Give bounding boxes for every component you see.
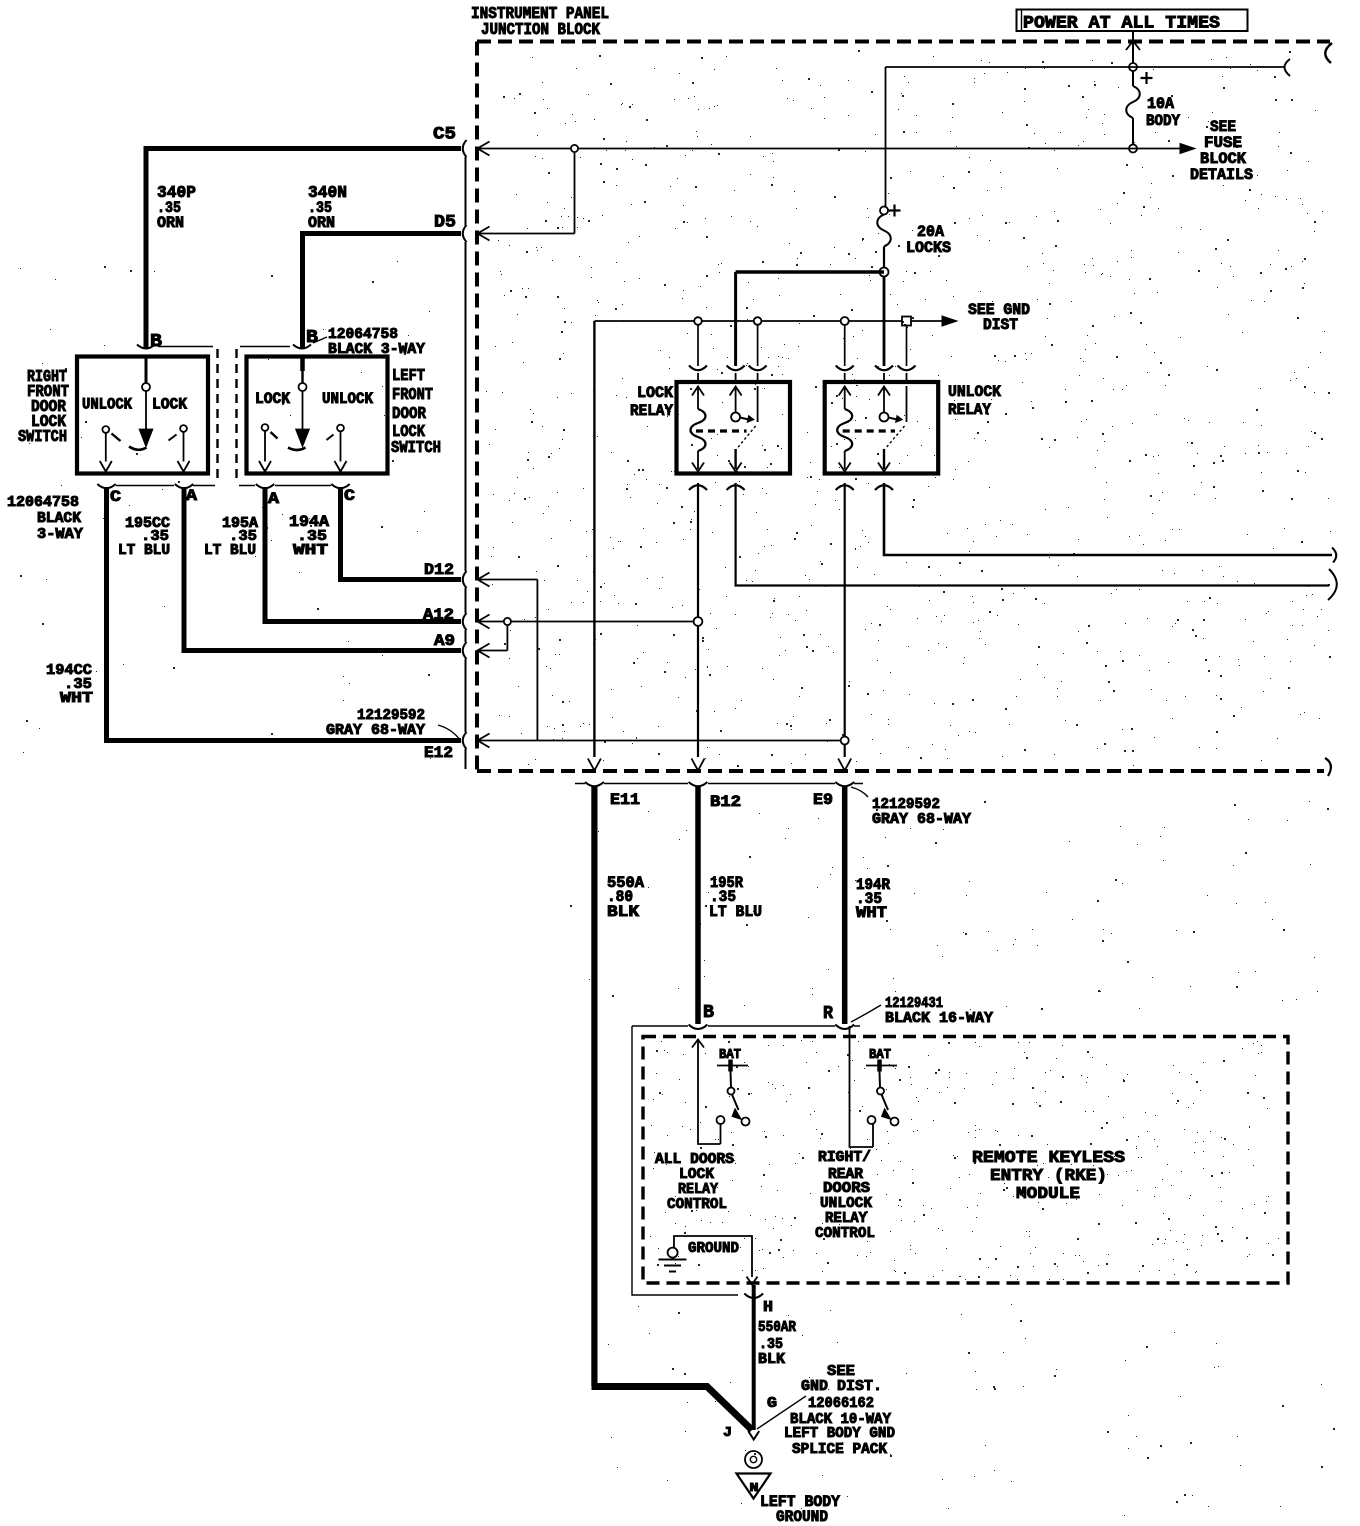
arrow at junction block left border (478, 573, 490, 587)
rke lock control input wire (692, 1040, 704, 1048)
connector cup left border (463, 571, 467, 588)
svg-text:D12: D12 (424, 561, 454, 579)
lock relay movable blade (737, 426, 756, 449)
wire 194A from left switch C to D12 (341, 487, 462, 580)
svg-text:A12: A12 (423, 606, 454, 624)
wire gnd stubs to relay pins (697, 325, 699, 366)
fuse 10A BODY element (1126, 86, 1140, 118)
wire C5 inner line to fuse (479, 148, 1180, 150)
wire D12 inner link down to E12 net (479, 580, 537, 741)
arrow to see fuse block details (1180, 144, 1195, 154)
right switch bottom connector line (116, 485, 215, 487)
connector curve end lock output (1328, 569, 1337, 600)
junction block dashed border top (477, 40, 1330, 44)
wire 550A E11 to ground (591, 786, 597, 1386)
right switch unlock contact (102, 426, 109, 433)
node A9 jumper on A12 line (504, 618, 511, 625)
svg-text:B: B (306, 327, 318, 348)
wire 194CC from right switch C to E12 (107, 487, 462, 741)
svg-text:E12: E12 (424, 744, 453, 762)
connector curve right end of y67 wire (1285, 59, 1291, 76)
unlock relay switch common pin (878, 387, 890, 396)
svg-text:LOCK: LOCK (152, 396, 188, 414)
connector cup relay top pin (689, 366, 707, 371)
arrow at junction block left border (478, 615, 490, 629)
svg-text:LOCKS: LOCKS (906, 239, 951, 257)
svg-text:LT BLU: LT BLU (118, 542, 170, 559)
svg-text:LT BLU: LT BLU (204, 542, 256, 559)
svg-text:DOORS: DOORS (823, 1181, 870, 1197)
circuit breaker 20A LOCKS element (877, 215, 891, 247)
svg-text:MODULE: MODULE (1016, 1185, 1080, 1204)
relay box lock relay (677, 382, 791, 474)
svg-text:BODY: BODY (1146, 112, 1181, 130)
svg-text:DETAILS: DETAILS (1190, 166, 1253, 184)
unlock relay movable blade (885, 426, 905, 449)
svg-text:WHT: WHT (60, 690, 93, 707)
lock relay coil (692, 387, 704, 396)
connector cup bottom border (689, 782, 708, 786)
rke unlock control input wire (850, 1026, 874, 1147)
svg-text:G: G (767, 1395, 777, 1412)
svg-text:SPLICE PACK: SPLICE PACK (792, 1442, 887, 1458)
bat terminal bar unlock side (866, 1065, 897, 1067)
svg-text:RELAY: RELAY (630, 402, 674, 420)
connector cup right switch B (137, 345, 155, 349)
relay box unlock relay (825, 382, 939, 474)
wire E12 inner link to E9 (479, 740, 841, 742)
node unlock relay contact to gnd (square) (902, 317, 911, 326)
rke lock control contact (717, 1116, 725, 1124)
bottom connector bracket line (575, 783, 863, 785)
rke unlock switch alternate contact (891, 1118, 899, 1126)
connector cup relay top pin (836, 366, 854, 371)
wire 20A output branch to lock relay (736, 270, 884, 274)
svg-text:GRAY 68-WAY: GRAY 68-WAY (872, 812, 971, 828)
junction block dashed border left (475, 42, 479, 772)
connector cup left switch A (256, 484, 274, 488)
rke module dashed box (643, 1037, 1288, 1284)
pointer G to splice label (757, 1396, 806, 1429)
wire A12 inner link to B12 net (479, 621, 694, 623)
arrow up at junction block border (1126, 41, 1140, 50)
svg-text:FRONT: FRONT (392, 385, 433, 404)
pointer 12129592 (851, 787, 868, 797)
rke unlock switch pivot (877, 1088, 884, 1095)
pointer to connector label (313, 337, 327, 343)
connector cup rke top (835, 1025, 854, 1030)
connector curve end unlock output (1332, 548, 1336, 563)
svg-text:12064758: 12064758 (328, 327, 398, 343)
connector cup bottom border (585, 782, 604, 786)
svg-text:LEFT: LEFT (392, 366, 425, 385)
svg-text:12066162: 12066162 (808, 1396, 874, 1412)
svg-text:LOCK: LOCK (679, 1167, 714, 1183)
node C5/D5 tie (571, 145, 578, 152)
bat terminal bar lock side (717, 1065, 748, 1067)
wire 194R E9 to rke (842, 786, 848, 1024)
wire unlock relay output to right edge (884, 483, 1332, 555)
svg-text:BLACK 16-WAY: BLACK 16-WAY (885, 1011, 993, 1027)
svg-text:E11: E11 (610, 791, 640, 809)
node A12 joins B12 net (694, 617, 703, 626)
svg-text:UNLOCK: UNLOCK (948, 383, 1002, 401)
right switch lock contact (180, 425, 187, 432)
svg-text:12064758: 12064758 (7, 495, 79, 511)
left switch dashed connector outline (235, 349, 237, 478)
svg-text:BLACK 3-WAY: BLACK 3-WAY (328, 342, 425, 358)
rke lock switch blade (732, 1095, 739, 1111)
connector cup left border (463, 140, 467, 157)
wire inner top feed line y67 (886, 66, 1285, 68)
rke case ground symbol (668, 1248, 678, 1258)
rke connector bracket (632, 1025, 860, 1027)
svg-text:ORN: ORN (157, 214, 184, 232)
svg-text:E9: E9 (813, 791, 833, 809)
svg-text:POWER AT ALL TIMES: POWER AT ALL TIMES (1023, 14, 1220, 34)
svg-text:GRAY 68-WAY: GRAY 68-WAY (326, 723, 425, 739)
svg-text:B: B (150, 331, 162, 352)
svg-text:UNLOCK: UNLOCK (820, 1196, 872, 1212)
svg-text:A9: A9 (434, 632, 455, 650)
pointer 12129431 (851, 1005, 881, 1022)
svg-text:C: C (110, 488, 121, 506)
svg-text:B: B (703, 1003, 714, 1023)
svg-text:C: C (344, 487, 355, 505)
node 20A output (880, 268, 889, 277)
svg-text:N: N (750, 1481, 759, 1495)
arrow down at junction block bottom border (838, 759, 851, 771)
svg-text:RELAY: RELAY (825, 1211, 867, 1227)
wire 195R B12 to rke (695, 786, 701, 1024)
wire lock relay output to right edge (736, 483, 1329, 586)
svg-text:10A: 10A (1147, 95, 1175, 113)
svg-text:DOOR: DOOR (392, 404, 426, 423)
arrow down at splice junction (748, 1431, 759, 1440)
left switch unlock contact (337, 425, 344, 432)
battery feed wire from power at all times (1132, 32, 1134, 86)
plus terminal 10A (1141, 72, 1153, 84)
svg-text:R: R (823, 1004, 833, 1024)
svg-text:C5: C5 (433, 125, 456, 145)
svg-text:WHT: WHT (856, 904, 887, 922)
svg-text:BLK: BLK (758, 1351, 785, 1368)
node E12 joins E9 net (841, 737, 849, 745)
svg-text:LEFT BODY GND: LEFT BODY GND (784, 1426, 895, 1442)
svg-text:550AR: 550AR (758, 1319, 796, 1336)
splice pack symbol (745, 1451, 762, 1468)
right switch stem (145, 357, 148, 383)
svg-text:UNLOCK: UNLOCK (322, 390, 374, 408)
svg-text:A: A (186, 487, 197, 505)
connector cup right switch A (175, 484, 193, 488)
svg-text:GROUND: GROUND (776, 1508, 828, 1526)
arrow at D5 terminal (478, 227, 490, 241)
svg-text:GND DIST.: GND DIST. (801, 1378, 882, 1395)
svg-text:LOCK: LOCK (255, 390, 291, 408)
connector cup left border (463, 642, 467, 659)
svg-text:12129592: 12129592 (357, 708, 425, 724)
svg-text:B12: B12 (710, 793, 741, 811)
arrow down rke ground exit (747, 1277, 758, 1285)
svg-text:BLK: BLK (607, 903, 640, 921)
wire 340P C5 (146, 149, 461, 350)
svg-text:DIST: DIST (983, 316, 1018, 334)
svg-text:3-WAY: 3-WAY (37, 527, 83, 543)
wire A9 jumper (479, 625, 507, 651)
arrow to see gnd dist (942, 316, 957, 326)
wire 550AR from rke ground (752, 1285, 756, 1430)
svg-text:12129431: 12129431 (885, 996, 943, 1012)
svg-text:SWITCH: SWITCH (18, 427, 67, 446)
svg-text:LOCK: LOCK (637, 384, 674, 402)
connector cup relay top pin (727, 366, 745, 371)
arrow at junction block left border (478, 734, 490, 748)
rke unlock control contact (868, 1116, 876, 1124)
connector cup relay bottom pin (875, 485, 893, 490)
rke lock switch pivot (728, 1088, 735, 1095)
unlock relay actuation dashed link (843, 429, 895, 432)
node junction fuse output on C5 line (1129, 145, 1137, 153)
arrow down at junction block bottom border (588, 759, 601, 771)
junction block dashed border bottom (477, 769, 1324, 773)
connector cup relay top pin (898, 366, 916, 371)
svg-text:JUNCTION BLOCK: JUNCTION BLOCK (481, 20, 600, 39)
connector cup relay top pin (749, 366, 767, 371)
left body ground triangle (737, 1474, 771, 1499)
svg-text:ENTRY (RKE): ENTRY (RKE) (990, 1167, 1107, 1186)
connector cup relay bottom pin (836, 485, 854, 490)
junction block dashed border bottom end curve (1325, 758, 1331, 776)
svg-text:12129592: 12129592 (872, 797, 940, 813)
unlock relay fixed contact pin (906, 386, 908, 422)
pointer gray 68-way to connector (438, 725, 460, 740)
wire unlock relay coil to E9 (844, 483, 846, 757)
right switch centre arc (129, 447, 147, 450)
connector cup left switch B (293, 345, 311, 349)
node unlock relay coil to gnd (841, 317, 849, 325)
svg-text:RIGHT/: RIGHT/ (818, 1150, 871, 1166)
svg-text:UNLOCK: UNLOCK (82, 396, 133, 414)
arrow at C5 terminal (478, 142, 490, 156)
svg-text:ORN: ORN (308, 214, 335, 232)
wire E11 ground drop inside junction block (593, 321, 595, 757)
arrow at junction block left border (478, 644, 490, 658)
svg-text:RELAY: RELAY (678, 1182, 718, 1198)
connector face line 68-way left (465, 157, 467, 769)
junction block dashed border top end connector curve (1325, 43, 1332, 63)
wire 195A from left switch A to A12 (265, 487, 461, 622)
right front door lock switch box (77, 357, 208, 474)
svg-text:LT BLU: LT BLU (709, 903, 762, 921)
connector cup bottom border (835, 782, 854, 786)
left switch bottom connector line (239, 485, 331, 487)
connector cup rke top (689, 1025, 708, 1030)
svg-text:H: H (763, 1299, 773, 1316)
wire ground distribution line (594, 320, 943, 322)
connector cup left switch C (331, 484, 349, 488)
node junction on feed at y67 (1129, 63, 1137, 71)
node 20A top (880, 207, 888, 215)
rke lock switch alternate contact (742, 1118, 750, 1126)
connector cup left border (463, 225, 467, 242)
wire 195CC from right switch A to A9 (184, 487, 461, 651)
node lock relay coil to gnd (694, 317, 702, 325)
right switch dashed connector outline (216, 349, 218, 478)
rke ground label box (674, 1236, 752, 1277)
wire 340N D5 (303, 234, 462, 350)
left switch lock contact (262, 424, 269, 431)
left front door lock switch box (247, 357, 388, 474)
power at all times box (1017, 10, 1248, 32)
lock relay switch common pin (730, 387, 742, 396)
lock relay fixed contact pin (757, 386, 759, 422)
rke unlock switch blade (882, 1095, 889, 1111)
connector cup right switch C (97, 484, 115, 488)
svg-text:WHT: WHT (293, 542, 328, 559)
connector cup relay top pin (875, 366, 893, 371)
connector cup rke H pin (744, 1294, 763, 1299)
lock relay actuation dashed link (696, 429, 747, 432)
connector cup relay bottom pin (727, 485, 745, 490)
unlock relay coil (839, 387, 851, 396)
arrow down at junction block bottom border (692, 759, 705, 771)
svg-text:SWITCH: SWITCH (391, 438, 441, 457)
plus terminal 20A (889, 205, 901, 217)
svg-text:J: J (723, 1425, 732, 1441)
wire 20A feed vertical (885, 67, 887, 207)
svg-text:BLACK: BLACK (37, 511, 81, 527)
svg-text:GROUND: GROUND (688, 1240, 739, 1257)
left switch centre arc (288, 448, 306, 451)
connector cup left border (463, 732, 467, 749)
wire 20A output down to unlock relay (883, 276, 886, 366)
svg-text:REMOTE KEYLESS: REMOTE KEYLESS (972, 1149, 1125, 1168)
wire lock relay coil to B12 (rke lock control) (697, 483, 699, 757)
node lock relay contact to gnd (754, 317, 762, 325)
connector cup left border (463, 613, 467, 630)
svg-text:D5: D5 (434, 213, 456, 233)
wire D5 inner line (479, 152, 575, 234)
connector cup relay bottom pin (689, 485, 707, 490)
svg-text:A: A (268, 490, 279, 508)
left switch stem (300, 357, 305, 372)
svg-text:ALL DOORS: ALL DOORS (655, 1152, 734, 1168)
